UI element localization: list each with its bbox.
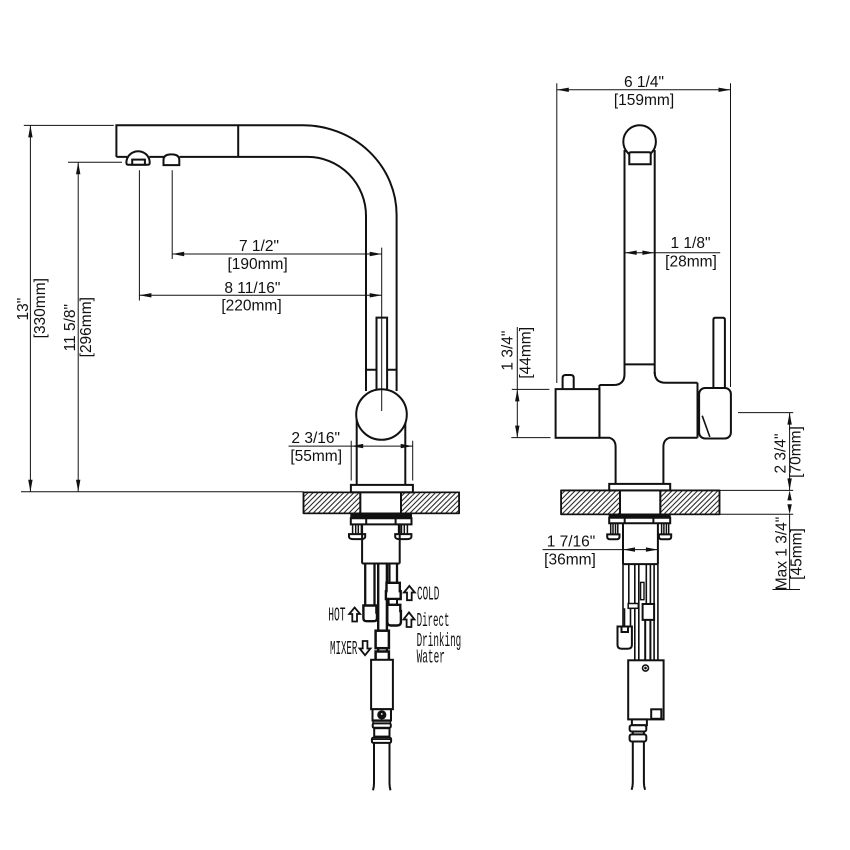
- arrow 2 3/4 bottom: [787, 478, 791, 490]
- mixer hose collar 1: [376, 631, 389, 649]
- arrow 13in top: [28, 125, 32, 137]
- svg-text:[190mm]: [190mm]: [227, 256, 287, 273]
- filter box (front view): [628, 660, 663, 719]
- aerator mixer outlet dome: [126, 151, 149, 164]
- arrow 2 3/16 left: [351, 444, 363, 448]
- svg-text:[159mm]: [159mm]: [614, 92, 674, 109]
- left bolt foot: [349, 534, 365, 539]
- dim 2 3/16 line: [289, 445, 413, 447]
- countertop left slab (side view): [304, 492, 460, 513]
- block arrow HOT up: [349, 608, 360, 622]
- shank through counter (side view): [360, 492, 401, 513]
- base flange (front view): [609, 484, 670, 491]
- svg-text:[28mm]: [28mm]: [665, 253, 717, 270]
- leader line aerator 1: [138, 170, 140, 300]
- hose connector ring 1 (side view): [373, 723, 391, 727]
- dim 6 1/4 line: [557, 89, 731, 91]
- riser tube (front view): [625, 150, 655, 385]
- cylinder pin circle: [377, 710, 386, 719]
- dim 1 7/16 line: [543, 549, 658, 551]
- shank through counter (front view): [620, 490, 660, 514]
- dim max 45 end tick: [773, 589, 801, 591]
- drinking water fitting: [387, 605, 401, 626]
- dim 6 1/4 ext lines: [557, 83, 731, 387]
- right bolt foot (front view): [659, 534, 671, 539]
- hose weight cylinder: [371, 660, 393, 709]
- svg-text:8 11/16": 8 11/16": [224, 280, 280, 297]
- cylinder pin dot: [381, 713, 383, 715]
- spout outer outline (head top, arc, right tube side): [116, 125, 396, 391]
- locknut row (front view): [609, 518, 670, 524]
- dim 1 1/8 line: [625, 252, 721, 254]
- arrow 1 3/4 top: [515, 389, 519, 401]
- filter box corner tab: [651, 709, 661, 719]
- arrow 8 11/16 right: [370, 293, 382, 297]
- locknut row (side view): [351, 518, 412, 524]
- svg-text:6 1/4": 6 1/4": [624, 74, 664, 91]
- base flange (side view): [351, 485, 413, 492]
- svg-text:13": 13": [15, 298, 32, 321]
- arrow 1 1/8 left: [625, 251, 637, 255]
- cold-drinking neck: [389, 599, 397, 605]
- arrow max45 bottom: [787, 504, 791, 514]
- hot hose: [365, 564, 374, 606]
- arrow 7 1/2 left: [172, 252, 184, 256]
- ball joint: [356, 389, 407, 440]
- hot hose fitting: [363, 606, 377, 622]
- outlet ring 2 (front view): [630, 734, 647, 741]
- svg-text:2 3/16": 2 3/16": [291, 430, 340, 447]
- arrow 1 1/8 right: [642, 251, 654, 255]
- aerator mixer inner notch: [132, 160, 145, 165]
- outlet hose (front view): [632, 732, 646, 790]
- hanging fitting (front view): [618, 627, 632, 649]
- outlet ring 1 (front view): [630, 725, 647, 731]
- block arrow MIXER down: [360, 641, 371, 655]
- countertop edges (front view): [561, 490, 719, 514]
- svg-text:[296mm]: [296mm]: [78, 297, 95, 357]
- right mounting bolt (front view): [662, 523, 669, 534]
- dim 8 11/16 line: [139, 294, 381, 296]
- lower supply column (side view): [362, 524, 400, 563]
- washer (front view): [609, 515, 670, 518]
- spout arc seen end-on (circle): [623, 125, 656, 158]
- cold/drinking hose: [389, 564, 397, 583]
- filter box circle: [643, 665, 649, 671]
- dim 13in extension line top: [24, 124, 114, 126]
- faucet body outline strokes: [599, 372, 697, 484]
- svg-text:1 1/8": 1 1/8": [671, 235, 711, 252]
- svg-text:7 1/2": 7 1/2": [239, 238, 279, 255]
- handle cap cone line: [702, 416, 710, 437]
- dim 2 3/4 line: [789, 413, 791, 491]
- svg-text:[44mm]: [44mm]: [517, 327, 534, 379]
- connector mid box: [374, 728, 389, 736]
- svg-text:1 3/4": 1 3/4": [500, 331, 517, 371]
- mixer hose: [378, 564, 387, 662]
- tube-body junction ticks: [366, 369, 397, 371]
- thin collar band: [373, 721, 390, 723]
- arrow 6 1/4 left: [557, 88, 569, 92]
- ring 2 inner line: [372, 738, 391, 740]
- svg-text:[220mm]: [220mm]: [221, 297, 281, 314]
- arrow 2 3/4 top: [787, 413, 791, 425]
- svg-text:HOT: HOT: [328, 604, 345, 627]
- arrow 11 5/8 top: [76, 162, 80, 174]
- block arrows for water labels: [349, 586, 415, 655]
- arrowheads: [28, 88, 792, 552]
- handle lever (front view): [713, 318, 725, 388]
- small bracket: [628, 604, 638, 609]
- arrow 7 1/2 right: [370, 252, 382, 256]
- outlet connector (front view): [632, 719, 647, 725]
- filter box dot: [644, 667, 647, 670]
- svg-text:Water: Water: [417, 646, 445, 669]
- arrow 13in bottom: [28, 480, 32, 492]
- right ref line at handle base: [738, 412, 793, 414]
- counter reference line left: [21, 491, 304, 493]
- svg-text:[55mm]: [55mm]: [290, 448, 342, 465]
- svg-text:MIXER: MIXER: [330, 637, 357, 660]
- right bolt foot: [395, 534, 411, 539]
- svg-text:1 7/16": 1 7/16": [547, 533, 596, 550]
- arrow max45 top: [787, 490, 791, 500]
- arrow 1 3/4 bottom: [515, 426, 519, 438]
- left valve knob (front view): [563, 375, 574, 389]
- svg-text:COLD: COLD: [417, 583, 439, 606]
- dim 2 3/16 ext lines: [351, 441, 413, 481]
- dim 1 3/4 ticks: [511, 389, 550, 437]
- cylinder lower section: [373, 709, 392, 720]
- countertop slab (front view): [561, 490, 719, 514]
- spout tip seen from front: [629, 152, 650, 164]
- dim 1 3/4 line: [516, 327, 518, 438]
- hose below bracket: [625, 608, 631, 626]
- arrow 2 3/16 right: [401, 444, 413, 448]
- counter ext lines right: [720, 490, 794, 514]
- arrow 8 11/16 left: [139, 293, 151, 297]
- faucet body (front view): [599, 374, 697, 484]
- svg-text:[36mm]: [36mm]: [544, 552, 596, 569]
- spout centerline: [381, 248, 383, 411]
- arrow 1 7/16 left: [623, 547, 635, 551]
- right mounting bolt (side view): [399, 524, 408, 534]
- countertop edges (side view): [304, 492, 460, 513]
- right fitting (front view): [643, 604, 655, 660]
- svg-text:[70mm]: [70mm]: [788, 426, 805, 478]
- hose connector ring 2 (side view): [372, 738, 391, 743]
- left bolt foot (front view): [607, 534, 619, 539]
- body column (side view): [357, 416, 406, 485]
- left mounting bolt (side view): [353, 524, 362, 534]
- riser tube joint line: [625, 363, 655, 365]
- dim 13in line: [29, 125, 31, 491]
- leader line aerator 2: [171, 170, 173, 259]
- handle lever rod (side view): [377, 318, 388, 393]
- block arrow COLD up: [404, 586, 415, 600]
- spout inner outline (bottom line segments, inner arc, inner tube side): [180, 157, 366, 391]
- washer (side view): [351, 515, 412, 519]
- cold fitting: [386, 583, 401, 599]
- supply tubes (front view): [623, 564, 658, 660]
- svg-text:[45mm]: [45mm]: [789, 528, 806, 580]
- left mounting bolt (front view): [611, 523, 618, 534]
- outlet hose (side view): [373, 743, 391, 790]
- svg-text:11 5/8": 11 5/8": [62, 304, 79, 351]
- spout head bottom line left segments: [116, 156, 164, 158]
- mixer hose collar 2: [376, 652, 389, 661]
- handle cap (front view): [699, 388, 731, 439]
- dim 11 5/8 line: [77, 162, 79, 492]
- block arrow Direct up: [404, 612, 415, 627]
- lower shank column (front view): [623, 523, 658, 564]
- dim 7 1/2 line: [172, 253, 382, 255]
- dim max 45 line lower: [789, 514, 791, 589]
- arrow 11 5/8 bottom: [76, 480, 80, 492]
- arrow 6 1/4 right: [719, 88, 731, 92]
- clip slot detail: [641, 582, 644, 599]
- arrow 1 7/16 right: [646, 547, 658, 551]
- svg-text:[330mm]: [330mm]: [32, 278, 49, 338]
- spout head divider: [237, 125, 239, 157]
- dim 11 5/8 extension line: [68, 161, 122, 163]
- aerator drinking outlet dome: [164, 154, 180, 165]
- left valve arm (front view): [556, 389, 600, 438]
